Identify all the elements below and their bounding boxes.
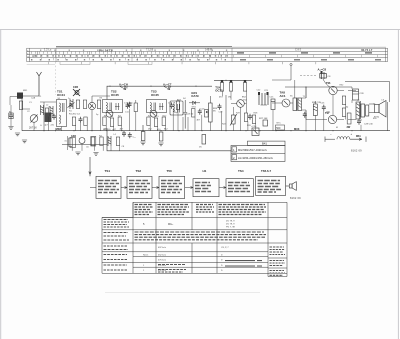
svg-text:475 kc/s: 475 kc/s [158, 260, 167, 262]
svg-text:R3: R3 [100, 98, 104, 100]
dial glass top edge dark stripe [56, 46, 232, 48]
page border top rule [0, 29, 400, 31]
svg-text:220: 220 [51, 125, 55, 127]
dial under bracket 1 [60, 62, 90, 65]
padder capacitor C3 [52, 114, 56, 120]
resistor R22 below bus [202, 135, 206, 145]
test point wire [290, 63, 292, 80]
table cell freqs [226, 221, 236, 229]
svg-text:OC44: OC44 [57, 93, 65, 97]
table col line 2 [155, 202, 157, 273]
block box TS5 [256, 176, 286, 195]
dial scale frame [27, 48, 388, 61]
wires output stage [333, 87, 356, 120]
svg-text:C6: C6 [86, 147, 90, 149]
svg-text:29, 79, 9: 29, 79, 9 [226, 221, 235, 223]
resistor R30 [313, 104, 317, 115]
IF amplifier transistor TS2 [106, 110, 113, 117]
AGC arrow A2 [163, 83, 172, 90]
resistor R12 [154, 118, 157, 127]
wire stubs to bus [10, 80, 361, 151]
page border right [397, 30, 399, 339]
svg-text:C18 50: C18 50 [187, 114, 195, 116]
wire stub [43, 102, 45, 131]
svg-text:OC72: OC72 [215, 89, 223, 93]
block box TS2 [127, 176, 152, 198]
block box H1 [193, 179, 219, 197]
resistor R9 [110, 118, 113, 127]
svg-text:C25: C25 [270, 97, 275, 99]
sidebar row line 2 [268, 267, 287, 269]
capacitor C29 [357, 119, 361, 125]
supply resistor R20 [220, 80, 223, 91]
svg-text:OC45: OC45 [151, 93, 159, 97]
block diagram feed wire [89, 157, 96, 188]
svg-text:OC45: OC45 [111, 93, 119, 97]
trimmer C2B [73, 89, 80, 96]
table row line 1 [102, 216, 287, 218]
svg-text:R29: R29 [236, 113, 241, 115]
dial tick row B [33, 55, 230, 57]
svg-text:−: − [330, 132, 332, 136]
svg-text:C₃₉: C₃₉ [133, 137, 136, 139]
capacitor C16 [170, 103, 174, 109]
trimmer circle [75, 91, 79, 95]
svg-text:L4: L4 [114, 134, 117, 136]
component value labels [9, 85, 385, 149]
svg-text:C1: C1 [29, 102, 33, 104]
B41 header box [248, 141, 286, 146]
svg-text:R28: R28 [254, 113, 259, 115]
output transistor TS6 [329, 86, 337, 94]
table row header texts col1 [104, 220, 130, 271]
table header col3 text [158, 205, 190, 215]
choke L6 [347, 113, 351, 124]
tuning capacitor C2 [30, 115, 38, 123]
oscillator transistor [79, 138, 85, 144]
wire link1 [22, 102, 56, 109]
svg-text:C16 1K: C16 1K [168, 103, 176, 105]
small box osc2 [91, 137, 96, 147]
dial section divider 3 [182, 48, 184, 61]
table col line 4 [216, 202, 218, 273]
svg-text:7.12 B: 7.12 B [146, 49, 154, 52]
dial scale row line 1 [27, 50, 388, 52]
table row line 6 [102, 261, 268, 263]
output rail wire [285, 86, 352, 88]
table row line 3 [102, 242, 287, 244]
antenna coupling core (dark) [45, 113, 52, 123]
IF amplifier transistor TS3 [150, 110, 157, 117]
svg-text:C11: C11 [125, 112, 130, 114]
IF transformer S2 [103, 100, 123, 113]
IF transformer S1 [57, 100, 67, 127]
svg-text:n5: n5 [65, 141, 68, 143]
resistor R15 below bus [159, 132, 163, 141]
svg-text:2: 2 [233, 156, 235, 160]
table note paragraph [135, 232, 267, 240]
svg-text:D: D [221, 265, 223, 267]
junction dots [43, 80, 352, 132]
capacitor C5 [79, 117, 83, 123]
volume potentiometer R24 [206, 103, 212, 122]
svg-text:C9: C9 [111, 116, 115, 118]
table col line 5 [267, 202, 269, 276]
svg-text:OA79: OA79 [191, 94, 199, 98]
svg-text:5p: 5p [96, 114, 99, 116]
svg-text:TS4: TS4 [238, 169, 244, 173]
small box osc1 [70, 138, 76, 148]
trimmer cap C4b [68, 103, 75, 108]
svg-text:C8: C8 [328, 76, 332, 78]
ground gnd2 [22, 140, 27, 143]
dial number row B [237, 52, 384, 54]
ground gnd6 [93, 153, 98, 156]
table row4 entries [143, 247, 229, 272]
ground gnd3 [140, 142, 145, 145]
svg-text:8K2: 8K2 [242, 97, 247, 99]
svg-text:TS4: TS4 [243, 100, 248, 102]
resistor R11 [147, 117, 150, 126]
wire stub TS1 emitter [91, 110, 93, 131]
svg-text:LG=1150–2000m/150–260 kc/s: LG=1150–2000m/150–260 kc/s [238, 157, 274, 160]
ground gnd7 [8, 127, 13, 130]
svg-text:P9, 7, 98: P9, 7, 98 [226, 227, 236, 229]
svg-text:R32: R32 [340, 85, 345, 87]
svg-text:G: G [40, 125, 42, 127]
resistor R26 [244, 113, 247, 122]
svg-text:L1: L1 [39, 96, 42, 98]
svg-text:H1: H1 [203, 169, 207, 173]
driver transistor TS4 [237, 100, 245, 108]
svg-text:D: D [221, 270, 223, 272]
svg-text:R1 2K2 C4: R1 2K2 C4 [69, 114, 80, 116]
svg-text:452 kc/s: 452 kc/s [158, 265, 167, 267]
interstage resistor R7b [134, 103, 137, 112]
svg-text:TS6: TS6 [326, 82, 331, 85]
svg-text:TS1: TS1 [105, 169, 111, 173]
svg-text:T50: T50 [167, 169, 173, 173]
IF transformer S3 [147, 100, 167, 113]
dial section divider 2 [131, 48, 133, 61]
capacitor C26 [322, 105, 326, 111]
ferrite rod coil L1 [41, 105, 44, 115]
capacitor C10 [128, 102, 132, 108]
table col line 3b [191, 243, 193, 273]
ground gnd5 [75, 152, 80, 155]
svg-text:1.3 9: 1.3 9 [32, 55, 38, 58]
svg-text:TS2: TS2 [136, 169, 142, 173]
wire from A4 cluster [323, 79, 330, 87]
B41 body box [231, 146, 285, 162]
supply resistor R25 [243, 80, 246, 91]
electrolytic C28 [353, 89, 365, 100]
svg-text:30.74 L7: 30.74 L7 [361, 48, 373, 52]
transformer hatch [298, 100, 301, 108]
dial under bracket 2 [128, 62, 152, 65]
label cluster left [31, 96, 51, 127]
output transformer T2 [356, 101, 369, 119]
svg-text:5: 5 [143, 222, 145, 226]
svg-text:C9, P, 7: C9, P, 7 [221, 247, 229, 249]
dial scale right end cap [384, 48, 386, 61]
resistor R18 [100, 137, 103, 146]
svg-text:NTC: NTC [277, 123, 282, 125]
sidebar text blocks [270, 247, 286, 275]
resistor R7 [84, 117, 87, 126]
capacitor C18 below [128, 132, 132, 138]
resistor R10 [118, 117, 121, 126]
AF coupling box [205, 110, 209, 118]
table header col4 text [196, 205, 214, 213]
resistor R3 [76, 100, 79, 109]
dial scale row line 3 [27, 57, 388, 59]
svg-text:Neen: Neen [143, 255, 149, 257]
dashed linkage wire [300, 75, 317, 77]
svg-text:C15: C15 [155, 116, 160, 118]
wire rail drop [225, 95, 227, 131]
svg-text:1Ω: 1Ω [346, 107, 349, 109]
table row4 dashes [158, 261, 262, 272]
svg-text:1K: 1K [199, 147, 202, 149]
svg-text:+C24: +C24 [251, 126, 257, 128]
svg-text:8162 69: 8162 69 [290, 196, 301, 200]
socket MK1 [17, 93, 23, 99]
emitter resistor R33 [342, 108, 345, 117]
dial glass top edge light stripe [232, 46, 386, 48]
svg-text:C28: C28 [360, 93, 365, 95]
dial cord mechanism [325, 132, 366, 142]
ground gnd1 [15, 133, 20, 136]
svg-text:8K2: 8K2 [164, 129, 169, 131]
svg-text:1: 1 [143, 265, 145, 267]
svg-text:1M: 1M [228, 97, 231, 99]
supply rail wire [214, 79, 252, 81]
coil L4 [108, 136, 111, 146]
svg-text:1: 1 [233, 148, 235, 152]
svg-text:C26: C26 [321, 103, 326, 105]
dial tick row A [31, 52, 230, 54]
dial under line [27, 64, 55, 66]
dial under ticks [48, 62, 340, 65]
svg-text:TS5-6-7: TS5-6-7 [261, 169, 272, 173]
band switch link (dashed) [55, 62, 57, 95]
svg-text:C8: C8 [122, 146, 126, 148]
svg-text:500: 500 [276, 127, 281, 130]
svg-text:R1: R1 [69, 111, 73, 113]
table header col5 text [219, 205, 267, 215]
label R28 box [276, 125, 285, 130]
svg-text:C2: C2 [27, 111, 31, 113]
svg-text:MK1: MK1 [23, 90, 28, 92]
svg-text:+: + [351, 132, 353, 136]
small rect comp B1 [9, 113, 13, 119]
svg-text:R31: R31 [327, 112, 332, 114]
svg-text:M: M [336, 127, 338, 129]
resistor R8 [103, 117, 106, 126]
thermistor R29 [230, 114, 237, 126]
resistor R14 below bus [141, 125, 145, 141]
block arrow 3 [185, 187, 193, 189]
resistor R13 [162, 117, 165, 126]
table col line 1 [132, 202, 134, 273]
resistor R13b [176, 101, 179, 110]
coupling electrolytic C23 [265, 92, 269, 105]
table row line 4 [102, 251, 268, 253]
wire stub TS1 collector [91, 96, 93, 103]
svg-text:29, 79, 9: 29, 79, 9 [226, 224, 235, 226]
table row line 7 [133, 266, 268, 268]
capacitor C21 [248, 114, 252, 120]
battery return wire [107, 131, 231, 151]
svg-text:GR1: GR1 [192, 107, 197, 109]
svg-text:2K7 1K: 2K7 1K [29, 127, 37, 130]
input section left column wire [22, 96, 39, 131]
svg-text:PH 5472: PH 5472 [99, 48, 113, 52]
wire driver to output [302, 87, 327, 120]
svg-text:C22: C22 [257, 90, 262, 92]
table col line 3 [191, 202, 193, 230]
dial scale left end cap [29, 48, 31, 61]
dial number row A [35, 55, 230, 57]
IF filter S4 box [170, 101, 183, 115]
block arrow 4 [219, 187, 226, 189]
svg-text:4p7: 4p7 [45, 125, 49, 127]
emitter resistor R32 [342, 96, 345, 105]
sidebar row line 1 [268, 257, 287, 259]
coil L3 [70, 99, 73, 109]
table row line 2 [102, 229, 287, 231]
svg-text:T1: T1 [303, 96, 306, 98]
feedback wire [345, 82, 390, 103]
resistor R17 [91, 137, 94, 146]
resistor R28 [252, 115, 255, 124]
svg-text:R27 10K: R27 10K [259, 118, 268, 120]
svg-text:C2B: C2B [73, 86, 78, 89]
capacitor C14 below bus [122, 131, 126, 137]
svg-text:1.2 L≡: 1.2 L≡ [44, 47, 52, 51]
oscillator return wire [62, 144, 107, 146]
svg-text:5K: 5K [213, 111, 216, 113]
svg-text:MX2: MX2 [56, 127, 62, 131]
dial number row C [31, 59, 230, 61]
ground gnd4 [158, 143, 163, 146]
electrolytic C25 [271, 99, 275, 110]
block box TS3 [159, 176, 185, 198]
svg-text:452 kc/s: 452 kc/s [158, 255, 167, 257]
AGC arrow A1 [119, 83, 128, 90]
wire pot top [209, 96, 211, 103]
svg-text:S5: S5 [290, 96, 293, 98]
electrolytic C24 [251, 126, 259, 136]
block arrow 2 [152, 187, 159, 189]
detector diode GR1 [189, 101, 200, 105]
block box TS4 [226, 179, 253, 197]
block arrow 1 [121, 187, 127, 189]
wire TS5 base [272, 102, 293, 104]
speaker wires [369, 102, 388, 131]
output transistor TS7 [328, 115, 336, 123]
resistor R5 [97, 100, 100, 109]
sidebar bottom [268, 273, 287, 276]
svg-text:B41: B41 [262, 142, 267, 146]
svg-text:1: 1 [143, 270, 145, 272]
antenna [37, 72, 42, 96]
coupling electrolytic C22 [258, 92, 262, 105]
dial section divider 1 [55, 48, 57, 61]
driver transformer T1 primary [293, 98, 302, 112]
svg-text:R12: R12 [163, 116, 168, 118]
resistor R1 [19, 101, 22, 110]
svg-text:D: D [221, 260, 223, 262]
svg-text:C29 C30: C29 C30 [364, 124, 373, 126]
loudspeaker [375, 101, 387, 118]
svg-text:T2: T2 [357, 100, 360, 102]
dial tick row C [29, 58, 230, 60]
dial section divider 4 [231, 48, 233, 61]
page border left [0, 30, 2, 339]
svg-text:C2A: C2A [31, 97, 36, 100]
svg-text:C23: C23 [264, 90, 269, 92]
svg-text:MG=590m/517–1620 kc/s: MG=590m/517–1620 kc/s [238, 149, 267, 152]
svg-text:M61: M61 [356, 135, 361, 138]
svg-text:C 8 5: C 8 5 [295, 49, 302, 52]
oscillator coil L2 [50, 106, 53, 116]
svg-text:AC1: AC1 [280, 94, 286, 98]
svg-text:D: D [221, 255, 223, 257]
svg-text:8162 69: 8162 69 [351, 149, 362, 153]
ground bus wire [22, 130, 390, 132]
capacitor C18 [183, 100, 187, 129]
svg-text:1n: 1n [68, 98, 71, 100]
capacitor C13 [126, 103, 130, 109]
driver transistor TS5 [282, 99, 290, 107]
resistor R6 [72, 117, 75, 126]
AGC wire [107, 86, 212, 99]
table header col2 text [135, 205, 154, 215]
resistor R16 [69, 138, 72, 147]
dial tick row A tall [37, 52, 230, 55]
svg-text:14B R: 14B R [205, 48, 212, 51]
svg-text:C20: C20 [219, 112, 224, 114]
dial scale row line 2 [27, 54, 388, 56]
capacitor C19 [198, 109, 202, 115]
svg-text:MG~: MG~ [168, 223, 174, 226]
resistor R21 [192, 109, 195, 118]
resistor R27 [263, 120, 268, 126]
resistor R19 [116, 137, 119, 146]
svg-text:A₄=C8: A₄=C8 [318, 68, 327, 72]
block speaker icon [286, 182, 297, 191]
svg-text:MX3: MX3 [294, 127, 300, 131]
oscillator sub-circuit [69, 132, 136, 155]
capacitor C27 stub [303, 112, 307, 118]
capacitor C1 [9, 113, 13, 119]
svg-text:4K7: 4K7 [219, 97, 224, 99]
table outer [102, 202, 287, 273]
resistor R4 [83, 100, 86, 109]
block box TS1 [96, 176, 121, 198]
svg-text:3W: 3W [347, 126, 351, 129]
electrolytic C27b [320, 71, 331, 79]
table row line 5 [133, 256, 268, 258]
mixer transistor TS1 [88, 102, 95, 109]
resistor R2 [45, 108, 48, 117]
faint artifact line [105, 292, 260, 294]
svg-text:497 kc/s: 497 kc/s [158, 247, 167, 249]
supply resistor R23 [229, 80, 232, 91]
svg-text:4K7: 4K7 [197, 120, 202, 122]
